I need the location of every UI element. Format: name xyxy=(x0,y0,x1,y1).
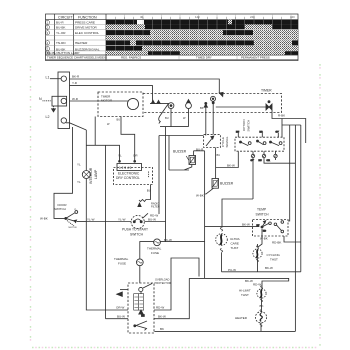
svg-text:BK-R: BK-R xyxy=(72,75,80,79)
svg-text:DOOR: DOOR xyxy=(58,203,68,207)
option stubs bottom xyxy=(252,151,254,199)
wire (fuse F1 to fuse F2) xyxy=(140,242,154,259)
timer chart bar row 3 (ELEC CONTROL) xyxy=(106,30,150,35)
ultra care thermostat TH1 xyxy=(220,228,223,232)
cycling thermostat TH2 xyxy=(256,246,258,249)
svg-text:BK-W: BK-W xyxy=(265,266,273,270)
wire BU-R bus (buzzer to thermostats) xyxy=(204,151,206,279)
option switch S3 dashed box xyxy=(235,137,284,151)
svg-text:BU-BK: BU-BK xyxy=(56,25,66,29)
motor M1 windings and centrifugal switch xyxy=(143,284,152,289)
temp switch S4 dashed box xyxy=(253,220,289,237)
svg-text:RD-W: RD-W xyxy=(253,282,261,286)
option switch top pins xyxy=(238,133,278,137)
wire PU-W (ultra care to bus) xyxy=(222,271,301,273)
svg-text:240: 240 xyxy=(250,15,255,19)
svg-text:PRESS CARE: PRESS CARE xyxy=(75,21,95,25)
svg-text:YL-OR: YL-OR xyxy=(56,31,66,35)
svg-text:BUZZER: BUZZER xyxy=(173,150,187,154)
svg-text:TIMED DRY: TIMED DRY xyxy=(196,55,212,59)
timer chart bar row 4 xyxy=(106,36,298,40)
push-to-start switch S2 xyxy=(131,215,144,228)
svg-text:340: 340 xyxy=(290,15,295,19)
vertical component labels xyxy=(89,119,251,184)
svg-text:BK-W: BK-W xyxy=(245,279,253,283)
svg-text:TN-RD: TN-RD xyxy=(56,41,66,45)
wire lamp branch lower xyxy=(85,179,87,222)
svg-text:140: 140 xyxy=(195,15,200,19)
thermal fuse F2 xyxy=(136,259,143,266)
svg-text:OPTION: OPTION xyxy=(242,119,246,131)
timer sequence chart table frame xyxy=(46,14,299,61)
svg-text:SWITCH: SWITCH xyxy=(256,212,270,216)
svg-text:ELEC CONTROL: ELEC CONTROL xyxy=(75,31,99,35)
branch up from push wire xyxy=(158,136,160,215)
svg-text:ULTRA: ULTRA xyxy=(230,237,240,241)
wires temp switch to cycling thermostat xyxy=(258,229,262,247)
heater HTR1 xyxy=(260,310,262,313)
svg-text:L2: L2 xyxy=(46,115,50,119)
wire R-BK (timer to option switch) xyxy=(272,110,306,143)
wire BK-W (bus to temp switch) xyxy=(205,226,259,228)
svg-text:BU-W: BU-W xyxy=(148,218,156,222)
motor feed arrow xyxy=(120,289,128,291)
svg-text:N: N xyxy=(39,97,42,101)
svg-text:BU: BU xyxy=(259,160,262,162)
svg-text:PROTECTOR: PROTECTOR xyxy=(155,281,171,285)
timer chart bar row 2 (DRIVE MOTOR) xyxy=(106,24,145,29)
svg-text:BU-R: BU-R xyxy=(56,21,64,25)
wires RD-W/BK-W (motor to heater circuit) xyxy=(154,258,199,310)
svg-text:TIMER: TIMER xyxy=(261,89,272,93)
thermal fuse F1 xyxy=(154,239,161,246)
circled row numbers xyxy=(45,20,49,55)
wire (contact bar to cycle signal) xyxy=(168,136,170,171)
svg-text:LAMP: LAMP xyxy=(94,169,98,179)
svg-text:TIMER SEQUENCE CHART-MODELS MD: TIMER SEQUENCE CHART-MODELS MDE/G xyxy=(47,55,108,59)
node L1 stub xyxy=(50,78,61,80)
wire BK-W (cycle signal to option switch) xyxy=(216,151,239,167)
timer chart bar row 5 (HEATER) xyxy=(106,40,130,45)
svg-text:SWITCH: SWITCH xyxy=(130,232,144,236)
cycle signal lamp box xyxy=(204,135,221,148)
svg-text:TEMP: TEMP xyxy=(257,208,267,212)
timer chart bar row 6 xyxy=(106,46,142,51)
timer contacts xyxy=(150,102,169,104)
svg-text:SWITCH: SWITCH xyxy=(247,120,251,132)
drive motor M1 dashed box xyxy=(128,283,154,333)
svg-text:YL: YL xyxy=(77,163,81,167)
wire lamp branch upper xyxy=(85,130,87,171)
svg-text:W-R: W-R xyxy=(72,97,79,101)
svg-text:PUSH TO START: PUSH TO START xyxy=(122,228,148,232)
tick scale numbers xyxy=(140,15,295,19)
svg-text:W-BK: W-BK xyxy=(196,194,204,198)
svg-text:PU-W: PU-W xyxy=(228,268,236,272)
connector strip pins 1-5 xyxy=(117,164,142,171)
svg-text:MOTOR: MOTOR xyxy=(101,99,113,103)
svg-text:INTERIOR: INTERIOR xyxy=(89,167,93,184)
svg-text:FUNCTION: FUNCTION xyxy=(78,15,97,19)
electronic dry control U1 xyxy=(114,168,153,185)
svg-text:DRY CONTROL: DRY CONTROL xyxy=(116,176,140,180)
svg-text:BU-W: BU-W xyxy=(117,315,125,319)
svg-text:YL: YL xyxy=(77,180,81,184)
buzzer BZ1 xyxy=(189,156,196,165)
svg-text:BU: BU xyxy=(165,116,169,120)
svg-text:SWITCH: SWITCH xyxy=(54,207,66,211)
svg-text:BR: BR xyxy=(260,132,263,134)
svg-text:CIRCUIT: CIRCUIT xyxy=(58,15,73,19)
svg-text:BK-W: BK-W xyxy=(227,163,235,167)
svg-text:RD-W: RD-W xyxy=(156,306,164,310)
svg-text:CYCLING: CYCLING xyxy=(267,253,281,257)
svg-text:MOTOR: MOTOR xyxy=(69,227,78,229)
ground (chassis, below N) xyxy=(53,106,55,109)
svg-text:FILTER: FILTER xyxy=(151,205,160,209)
svg-text:FUSE: FUSE xyxy=(118,261,126,265)
wire BU-W (push switch to thermal fuse) xyxy=(144,222,165,242)
svg-text:R-BK: R-BK xyxy=(278,114,285,118)
svg-text:BK: BK xyxy=(200,106,204,110)
svg-text:YL: YL xyxy=(118,154,122,158)
svg-text:W-BK: W-BK xyxy=(260,237,268,241)
door switch S1 xyxy=(65,217,67,219)
svg-text:RD-BK: RD-BK xyxy=(272,241,281,245)
temp switch contacts xyxy=(261,226,263,228)
wire BK (motor to L2 return, bottom) xyxy=(155,330,296,332)
svg-text:YL-W: YL-W xyxy=(87,217,95,221)
wire (heater to bottom return) xyxy=(260,323,262,332)
svg-text:DRIVE MOTOR: DRIVE MOTOR xyxy=(75,25,98,29)
wire YL-W (door switch to push-to-start) xyxy=(86,221,131,223)
option switch contacts xyxy=(240,141,242,143)
neutral connector N xyxy=(52,96,67,106)
svg-text:GY: GY xyxy=(251,160,255,162)
svg-text:1 2 3 4 5: 1 2 3 4 5 xyxy=(119,166,132,170)
wire W-BK (to door switch) xyxy=(54,127,73,218)
svg-text:BK-W: BK-W xyxy=(164,238,172,242)
svg-text:THST: THST xyxy=(241,293,249,297)
wire W-R (N to timer motor) xyxy=(70,100,129,102)
interior lamp DS1 xyxy=(82,171,90,179)
wire Y-R (L1 to timer contact bar) xyxy=(70,86,153,104)
hi-limit thermostat TH3 xyxy=(261,286,263,289)
timer T1 dashed outline xyxy=(143,94,282,113)
timer chart bar row 7 (BUZZER/SIGNAL) xyxy=(106,51,148,55)
wire from L2 to lamp branch xyxy=(66,123,86,130)
wire and component text labels xyxy=(39,75,50,119)
terminal block TB1 (L1/N/L2) xyxy=(58,72,70,129)
svg-text:HEATER: HEATER xyxy=(235,316,248,320)
header + row labels xyxy=(58,15,97,19)
ground (radio filter, EDC) xyxy=(139,185,151,202)
svg-text:OR-W: OR-W xyxy=(116,306,124,310)
wires right-side bus xyxy=(288,125,290,221)
wire BK-R (L1 to timer contact) xyxy=(70,79,220,94)
buzzer BZ2 xyxy=(212,179,219,189)
svg-text:BU: BU xyxy=(117,118,121,122)
timer contact (bowtie) xyxy=(266,104,272,110)
table row separators xyxy=(46,24,299,59)
svg-text:BK: BK xyxy=(260,304,264,308)
page border dots xyxy=(31,64,321,348)
svg-text:BU: BU xyxy=(236,132,239,134)
schematic wires and components xyxy=(43,72,306,333)
svg-text:OR: OR xyxy=(267,160,271,162)
timer motor M2 (dashed box + motor circle) xyxy=(98,92,143,117)
footer labels xyxy=(47,55,270,59)
svg-text:FUSE: FUSE xyxy=(151,251,159,255)
svg-text:BU: BU xyxy=(217,153,221,157)
svg-text:BK-W: BK-W xyxy=(242,223,250,227)
wires timer area to electronic dry control xyxy=(94,117,96,146)
svg-text:BUZZER: BUZZER xyxy=(220,182,234,186)
wire RD-W (to hi-limit thermostat) xyxy=(189,278,288,288)
svg-text:W-BK: W-BK xyxy=(40,217,48,221)
svg-text:CARE: CARE xyxy=(231,242,239,246)
svg-text:SIGNAL: SIGNAL xyxy=(225,136,229,147)
svg-text:BU: BU xyxy=(147,189,151,193)
svg-text:YL-W: YL-W xyxy=(118,217,126,221)
svg-text:THST: THST xyxy=(270,258,278,262)
timer chart bar row 1 (PRESS CARE) xyxy=(106,20,298,25)
svg-text:GY: GY xyxy=(276,132,280,134)
svg-text:REG. FABRICS: REG. FABRICS xyxy=(121,55,141,59)
svg-text:Y-R: Y-R xyxy=(72,81,78,85)
svg-text:BK: BK xyxy=(160,327,164,331)
wires OR-W/BU-W (left bus to motor) xyxy=(86,222,128,311)
svg-text:BU-R: BU-R xyxy=(196,147,204,151)
svg-text:HEATER: HEATER xyxy=(75,41,88,45)
svg-text:PERMANENT PRESS: PERMANENT PRESS xyxy=(241,55,270,59)
wire BK-W (fuse F1 to bus) xyxy=(160,241,204,243)
svg-text:L1: L1 xyxy=(46,75,50,79)
chart grid ticks xyxy=(125,14,292,55)
svg-text:BK-W: BK-W xyxy=(158,315,166,319)
svg-text:THST: THST xyxy=(231,246,239,250)
svg-text:HI-LIMIT: HI-LIMIT xyxy=(239,288,251,292)
